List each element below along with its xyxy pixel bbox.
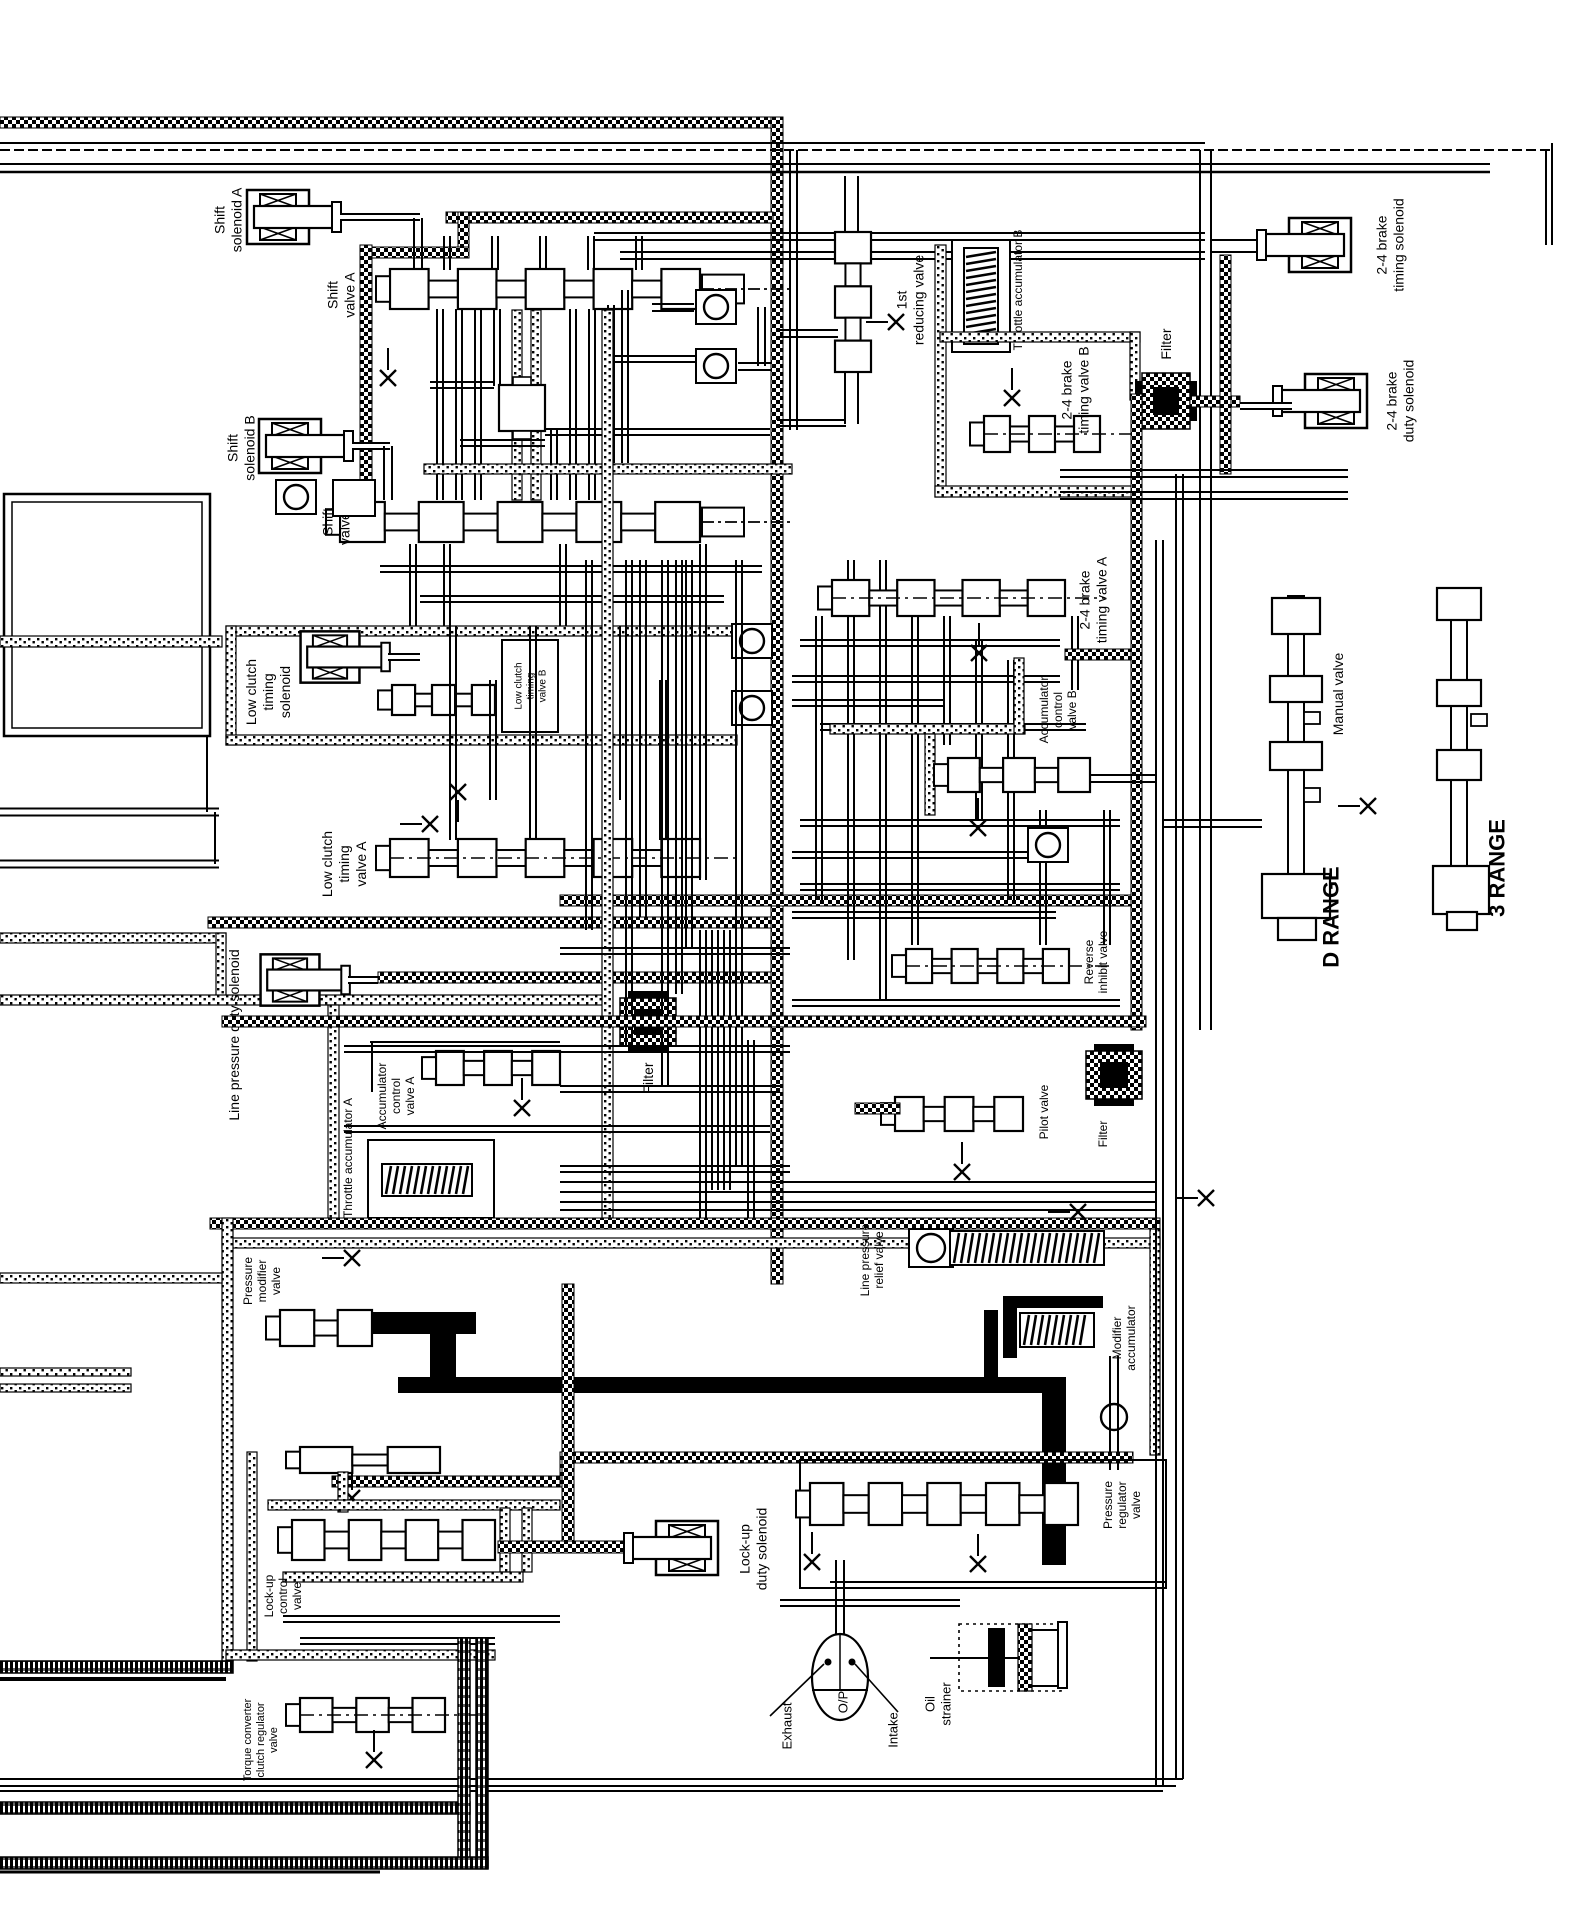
svg-text:Torque converter: Torque converter (242, 1698, 254, 1781)
wire stippled left column 2 (247, 1452, 257, 1661)
box low clutch enclosure top (226, 626, 737, 636)
wire bottom long pipe 1 (0, 1778, 1183, 1780)
label Torque converter clutch regulator valve (242, 1698, 280, 1781)
label D RANGE (1319, 866, 1344, 967)
valve Reverse inhibit valve (892, 949, 1109, 983)
wire hatched band y1661 (0, 1661, 233, 1673)
wire stippled riser throttle acc A (328, 1005, 339, 1218)
wire drops below shift valve B (409, 544, 411, 626)
wire top line 2 (0, 149, 1552, 151)
label Filter right (1096, 1121, 1110, 1148)
svg-text:clutch regulator: clutch regulator (255, 1702, 267, 1778)
wire checkered riser right (1220, 255, 1231, 474)
wire risers above shift valve A (443, 236, 445, 270)
svg-text:relief valve: relief valve (872, 1231, 886, 1289)
label Low clutch timing valve A (319, 831, 369, 897)
svg-text:control: control (276, 1578, 290, 1614)
label Shift solenoid A (211, 187, 244, 252)
wire 1st reducing valve bottom pipe (844, 372, 846, 424)
svg-text:2-4 brake: 2-4 brake (1076, 570, 1092, 629)
wire stippled feed into low clutch box (0, 636, 222, 647)
wire main vertical checkered trunk (771, 117, 783, 1284)
wire checkered drop to lock-up duty solenoid (562, 1284, 574, 1541)
wire black line y1872 (0, 1871, 380, 1874)
svg-text:valve B: valve B (1065, 690, 1079, 729)
box lock-up control valve bottom (283, 1572, 523, 1582)
drain X manual valve (1338, 798, 1376, 814)
wire to 2-4 brake duty solenoid (1240, 402, 1292, 410)
svg-text:Pressure: Pressure (241, 1257, 255, 1305)
svg-text:timing: timing (336, 845, 352, 882)
svg-text:valve: valve (268, 1727, 280, 1753)
wire reducing valve mid link (777, 329, 838, 331)
svg-text:Lock-up: Lock-up (262, 1574, 276, 1617)
wire drop to shift valve B (383, 446, 385, 500)
wire shift solenoid B output (352, 442, 390, 450)
wire line pressure duty solenoid output (348, 976, 378, 984)
pump oil pump O/P (812, 1634, 868, 1720)
wire to 2-4 brake timing solenoid (1211, 239, 1272, 241)
label Filter center (640, 1062, 656, 1093)
wire small port bottom right (1058, 1622, 1067, 1688)
wire stippled riser to 2-4 brake timing valve A (1014, 658, 1024, 734)
box throttle accumulator B enclosure (952, 240, 1010, 352)
drain X pressure regulator 2 (970, 1534, 986, 1572)
label 2-4 brake timing valve B (1058, 346, 1091, 433)
label Manual valve (1330, 653, 1346, 736)
svg-text:Line pressure duty solenoid: Line pressure duty solenoid (226, 949, 242, 1120)
box throttle accumulator A enclosure (368, 1140, 494, 1218)
label Pilot valve (1037, 1084, 1051, 1139)
check ball near acc control valve B (1028, 828, 1068, 862)
svg-text:Accumulator: Accumulator (1037, 677, 1051, 744)
label Shift valve B (319, 499, 352, 545)
drain X acc control valve A (514, 1078, 530, 1116)
wire 1st reducing valve top pipe (844, 176, 846, 232)
valve Low clutch timing valve B (378, 685, 495, 715)
valve Pressure modifier valve (266, 1310, 372, 1346)
label 1st reducing valve (893, 255, 926, 345)
wire stippled feed left y1273 (0, 1273, 222, 1283)
drain X right trunk (1176, 1190, 1214, 1206)
wire checkered to lock-up duty solenoid (498, 1541, 645, 1553)
svg-text:valve: valve (1129, 1491, 1143, 1519)
svg-text:modifier: modifier (255, 1260, 269, 1303)
svg-text:timing: timing (260, 673, 276, 710)
svg-text:inhibit valve: inhibit valve (1096, 930, 1110, 993)
box lock-up control valve top (268, 1500, 560, 1510)
drain X pressure modifier (322, 1250, 360, 1266)
filter top right (1135, 373, 1197, 429)
wire pipe pair below big box 1 (0, 808, 219, 817)
wire stippled drop to acc control valve B (925, 734, 935, 815)
wire top bundle a (594, 232, 1205, 234)
svg-text:2-4 brake: 2-4 brake (1058, 360, 1074, 419)
wire hatched band y1857 (0, 1857, 488, 1869)
box low clutch enclosure left (226, 626, 236, 745)
box 2-4 brake timing valve B enclosure top (940, 332, 1140, 342)
svg-text:valve A: valve A (341, 272, 357, 318)
wire stippled pair left 1 (0, 1368, 131, 1376)
wire right mesh horizontals (800, 639, 1060, 641)
wire bundle y1182-1210 (560, 1181, 1155, 1183)
wire checkered band to right trunk (560, 895, 1133, 906)
label Filter top right (1158, 328, 1174, 359)
svg-text:Filter: Filter (640, 1062, 656, 1093)
solenoid 2-4 brake timing solenoid (1257, 218, 1351, 272)
wire drop to shift valve A (413, 218, 415, 268)
wire stippled right trunk section (1150, 1229, 1160, 1455)
wire bottom long pipe 2 (0, 1790, 1163, 1792)
check ball upstream of shift valve B (276, 480, 316, 514)
svg-text:Low clutch: Low clutch (243, 659, 259, 725)
wire oil pump feed (835, 1560, 837, 1634)
drain X shift valve A (380, 348, 396, 386)
label Modifier accumulator (1110, 1305, 1138, 1370)
valve Manual valve (1262, 596, 1330, 940)
wire hatched riser 1 (458, 1638, 470, 1868)
svg-text:timing valve B: timing valve B (1075, 346, 1091, 433)
wire top line 3 (0, 163, 1490, 165)
wire stippled left column (222, 1218, 233, 1661)
valve Shift valve A (376, 269, 792, 309)
wire hatched riser 2 (476, 1638, 488, 1868)
svg-text:Reverse: Reverse (1082, 939, 1096, 984)
valve Lock-up control valve (278, 1520, 495, 1560)
label Oil strainer (923, 1682, 954, 1726)
valve Pressure regulator valve (796, 1483, 1078, 1525)
wire checkered branch to shift valve B (360, 245, 372, 505)
drain X acc control valve B (970, 798, 986, 836)
wire riser beside trunk (789, 150, 791, 430)
drain X lock-up zone (344, 1468, 360, 1506)
wire center mesh horizontals (560, 947, 790, 949)
svg-text:Modifier: Modifier (1110, 1317, 1124, 1360)
svg-text:2-4 brake: 2-4 brake (1383, 371, 1399, 430)
svg-text:solenoid A: solenoid A (228, 187, 244, 252)
svg-text:Pressure: Pressure (1101, 1481, 1115, 1529)
wire right trunk line 2 (1175, 474, 1177, 1779)
solenoid Shift solenoid A (247, 190, 341, 244)
strainer Oil strainer (959, 1624, 1061, 1691)
label Low clutch timing valve B (514, 662, 549, 709)
wire checkered band y1016 (222, 1016, 1146, 1027)
wire mesh horizontals between shift valves (608, 355, 700, 357)
label Throttle accumulator B (1011, 230, 1025, 351)
label Exhaust (780, 1702, 795, 1749)
wire stippled drop into lock-up valve (338, 1472, 348, 1512)
valve Pilot valve (881, 1097, 1023, 1131)
svg-text:Exhaust: Exhaust (780, 1702, 795, 1749)
svg-text:valve: valve (269, 1267, 283, 1295)
wire acc control B to trunk (1090, 774, 1156, 776)
label Throttle accumulator A (341, 1098, 355, 1218)
label Accumulator control valve B (1037, 677, 1079, 744)
label 2-4 brake timing solenoid (1373, 198, 1406, 291)
wire hatched band y1802 (0, 1802, 470, 1814)
wire checkered from duty solenoid to trunk (378, 972, 771, 983)
wire low clutch solenoid output (388, 653, 420, 661)
wire checkered band y1476 (332, 1476, 565, 1487)
drain X low clutch 2 (400, 816, 438, 832)
wire acc control valve A left line (371, 1042, 373, 1092)
drain X line pressure relief (1048, 1204, 1086, 1220)
wire stippled link to tcc valve (226, 1650, 495, 1660)
svg-text:Pilot valve: Pilot valve (1037, 1084, 1051, 1139)
wire thick black modifier pressure line (372, 1312, 476, 1334)
svg-text:valve B: valve B (538, 669, 549, 702)
label 2-4 brake duty solenoid (1383, 360, 1416, 443)
wire drops from low clutch box to valve A row (449, 626, 451, 840)
filter center (620, 991, 676, 1053)
wire top bundle b (620, 251, 1205, 253)
wire checkered filter to duty solenoid (1190, 396, 1240, 407)
wire shift solenoid A output (340, 213, 420, 221)
valve 2-4 brake timing valve B (970, 416, 1140, 452)
wire right bundle 2 (1060, 491, 1348, 493)
svg-text:Filter: Filter (1096, 1121, 1110, 1148)
svg-text:D RANGE: D RANGE (1319, 866, 1344, 967)
svg-text:control: control (389, 1078, 403, 1114)
wire stippled feed acc control valve B (830, 724, 1025, 734)
wire modifier accumulator drop (1109, 1356, 1111, 1470)
svg-text:Accumulator: Accumulator (375, 1063, 389, 1130)
svg-text:Throttle accumulator A: Throttle accumulator A (341, 1098, 355, 1218)
svg-text:duty solenoid: duty solenoid (753, 1508, 769, 1591)
label Line pressure duty solenooid (226, 949, 242, 1120)
wire second checkered band right part (446, 212, 773, 223)
solenoid Shift solenoid B (259, 419, 353, 473)
label Pressure regulator valve (1101, 1481, 1143, 1529)
valve Low clutch timing valve A (376, 839, 740, 877)
label Reverse inhibit valve (1082, 930, 1110, 993)
wire reducing valve to trunk (777, 419, 846, 421)
valve 2-4 brake timing valve A (818, 580, 1105, 616)
valve 3 range spool (1433, 588, 1489, 930)
svg-text:timing solenoid: timing solenoid (1390, 198, 1406, 291)
svg-text:valve A: valve A (403, 1077, 417, 1116)
wire top right corner drop (1545, 150, 1547, 245)
svg-text:accumulator: accumulator (1124, 1305, 1138, 1370)
wire trunk to manual valve (1163, 819, 1262, 821)
label 2-4 brake timing valve A (1076, 556, 1109, 643)
filter right (1086, 1044, 1142, 1106)
wire stippled pair left 2 (0, 1384, 131, 1392)
label Low clutch timing solenoid (243, 659, 293, 725)
box large reservoir outline top-left (4, 494, 210, 736)
wire stippled drop 1 (512, 310, 522, 500)
svg-text:1st: 1st (893, 291, 909, 310)
wire stippled drop 2 (531, 310, 541, 500)
svg-text:Low clutch: Low clutch (319, 831, 335, 897)
wire stippled loop bottom (0, 995, 607, 1005)
label O/P (836, 1691, 851, 1713)
svg-text:Oil: Oil (923, 1696, 938, 1712)
wire strainer link (930, 1657, 1018, 1659)
svg-text:control: control (1051, 692, 1065, 728)
wire stippled band y1238 (222, 1238, 1160, 1248)
svg-text:Filter: Filter (1158, 328, 1174, 359)
spring Throttle accumulator B (964, 248, 998, 344)
wire stippled loop right (216, 933, 226, 1000)
wire right mesh verticals (815, 616, 817, 900)
wire checkered band under low clutch valve A (208, 917, 771, 928)
svg-text:Intake: Intake (886, 1712, 901, 1747)
solenoid 2-4 brake duty solenoid (1273, 374, 1367, 428)
label Line pressure relief valve (858, 1223, 886, 1296)
svg-text:3 RANGE: 3 RANGE (1485, 819, 1510, 917)
box Low clutch timing valve B label box (502, 640, 558, 732)
wire main band y1218 (210, 1218, 1160, 1229)
wire acc control valve A top line (370, 1041, 560, 1043)
svg-text:Manual valve: Manual valve (1330, 653, 1346, 736)
svg-text:Line pressure: Line pressure (858, 1223, 872, 1296)
wire checkered band to branch corner (363, 247, 469, 258)
drain X 1st reducing valve (866, 314, 904, 330)
valve 1st reducing valve (835, 232, 871, 372)
wire checkered band y1452 (565, 1452, 1133, 1463)
valve Accumulator control valve A (422, 1051, 560, 1085)
valve Torque converter clutch regulator valve (286, 1698, 485, 1732)
svg-text:solenoid: solenoid (277, 666, 293, 718)
node junction circle (1101, 1404, 1127, 1430)
drain X 2-4 brake timing valve A (971, 623, 987, 661)
svg-text:reducing valve: reducing valve (910, 255, 926, 345)
wire checkered drop left of filter (1131, 394, 1142, 1030)
svg-text:solenoid B: solenoid B (241, 415, 257, 480)
wire checkered corner drop (458, 212, 469, 256)
svg-text:Shift: Shift (211, 206, 227, 234)
svg-text:2-4 brake: 2-4 brake (1373, 215, 1389, 274)
svg-text:Lock-up: Lock-up (736, 1524, 752, 1574)
wire stip band y464 (424, 464, 792, 474)
wire right riser pair A outer (1199, 150, 1201, 1030)
solenoid Line pressure duty solenoid (261, 954, 350, 1005)
drain X low clutch 1 (450, 784, 466, 822)
svg-text:valve A: valve A (353, 841, 369, 887)
wire lock-up to torque converter links (283, 1615, 560, 1617)
box 2-4 brake timing valve B enclosure right (1130, 332, 1140, 400)
valve Shift valve B (326, 502, 792, 542)
orifice box upstream of shift valve B (333, 480, 375, 516)
spring Throttle accumulator A (382, 1164, 472, 1196)
label Shift valve A (324, 272, 357, 318)
label Accumulator control valve A (375, 1063, 417, 1130)
wire link box to pipes (206, 737, 208, 812)
wire checkered link valve A to trunk (1065, 649, 1131, 660)
wire stippled lockup inner 1 (500, 1508, 510, 1572)
label Intake (886, 1712, 901, 1747)
svg-text:duty solenoid: duty solenoid (1400, 360, 1416, 443)
wire pipe pair below big box 2 (0, 860, 219, 869)
label Lock-up control valve (262, 1574, 304, 1617)
accumulator Modifier accumulator (1003, 1296, 1103, 1308)
check ball pair right of shift valve A (696, 290, 736, 324)
wire right bundle 1 (1060, 469, 1348, 471)
drain X pressure regulator 1 (804, 1532, 820, 1570)
svg-text:Low clutch: Low clutch (514, 662, 525, 709)
solenoid Lock-up duty solenoid (624, 1521, 718, 1575)
label Lock-up duty solenoid (736, 1508, 769, 1591)
svg-text:valve: valve (290, 1582, 304, 1610)
box pressure regulator enclosure (800, 1460, 1166, 1588)
valve Accumulator control valve B (934, 758, 1090, 792)
drain X pilot valve (954, 1142, 970, 1180)
wire checkered pilot valve feed (855, 1103, 900, 1114)
wire mesh between shift valves (436, 309, 438, 500)
valve lock-up control pilot piece (286, 1447, 440, 1473)
label Shift solenoid B (224, 415, 257, 480)
orifice component mid bundle (499, 385, 545, 431)
wire stippled lockup inner 2 (522, 1508, 532, 1572)
drain X tcc valve (366, 1730, 382, 1768)
wire torque-converter pressure trunk (top checkered band) (0, 117, 783, 128)
label 3 RANGE (1485, 819, 1510, 917)
wire right bottom link (830, 1581, 1166, 1583)
svg-text:Shift: Shift (224, 434, 240, 462)
wire checkered jog (560, 1452, 571, 1487)
svg-text:timing valve A: timing valve A (1093, 556, 1109, 643)
wire black line y1679 (0, 1677, 226, 1681)
check ball pair right of low clutch box (732, 624, 772, 658)
label Pressure modifier valve (241, 1257, 283, 1305)
solenoid Low clutch timing solenoid (301, 631, 390, 682)
svg-text:Shift: Shift (324, 281, 340, 309)
wire top line 1 (0, 142, 1205, 144)
wire stippled drop from throttle acc B (935, 245, 946, 497)
valve Line pressure relief valve (909, 1229, 953, 1267)
svg-text:strainer: strainer (939, 1682, 954, 1726)
svg-text:regulator: regulator (1115, 1481, 1129, 1528)
wire stippled band under 2-4 brake timing valve B (935, 486, 1133, 497)
wire stippled long center riser (602, 310, 613, 1218)
svg-text:O/P: O/P (836, 1691, 851, 1713)
box low clutch enclosure bottom (226, 735, 737, 745)
wire oil pump leaders (770, 1664, 824, 1716)
wire stippled loop top (line pressure duty) (0, 933, 226, 943)
drain X 2-4 brake timing valve B (1004, 368, 1020, 406)
wire top line 4 (0, 171, 1490, 174)
wire right trunk line 1 (1155, 540, 1157, 1786)
